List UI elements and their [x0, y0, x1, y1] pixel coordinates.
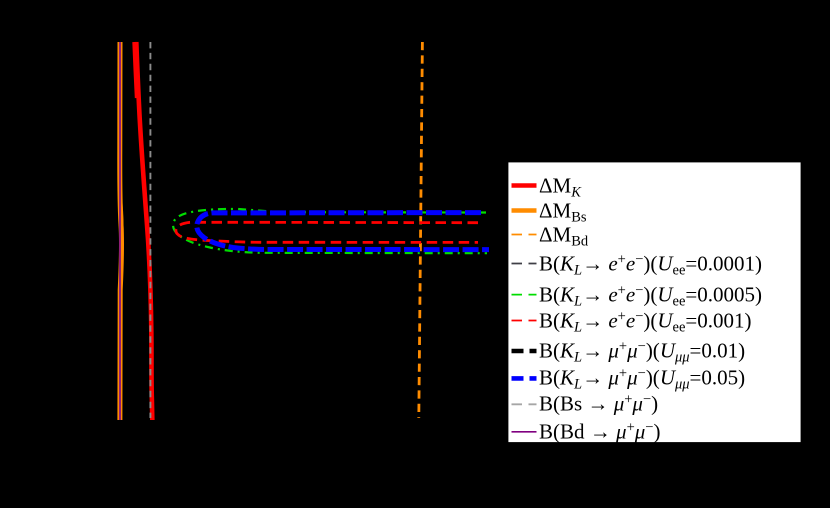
- curve B(Bs->mumu) gray dashed vertical: [149, 42, 151, 418]
- curve Delta M_K red thick: [136, 42, 152, 420]
- curve Delta M_Bd orange dashed vertical: [419, 42, 423, 418]
- legend box: [508, 162, 802, 444]
- contour B(KL->mumu)(Umumu=0.05) blue thick dashed: [197, 213, 489, 250]
- legend texts: [539, 175, 581, 196]
- curve Delta M_Bs orange solid vertical: [120, 42, 122, 420]
- curve B(Bd->mumu) purple vertical: [119, 42, 121, 420]
- legend keys: [512, 183, 537, 188]
- contour B(KL->ee)(Uee=0.001) red dashed: [176, 222, 478, 242]
- curve Delta M_K red second branch at top: [134, 42, 137, 98]
- contour B(KL->ee)(Uee=0.0005) green dash-dot: [173, 209, 487, 253]
- curve Delta M_Bs bulge: [121, 195, 123, 265]
